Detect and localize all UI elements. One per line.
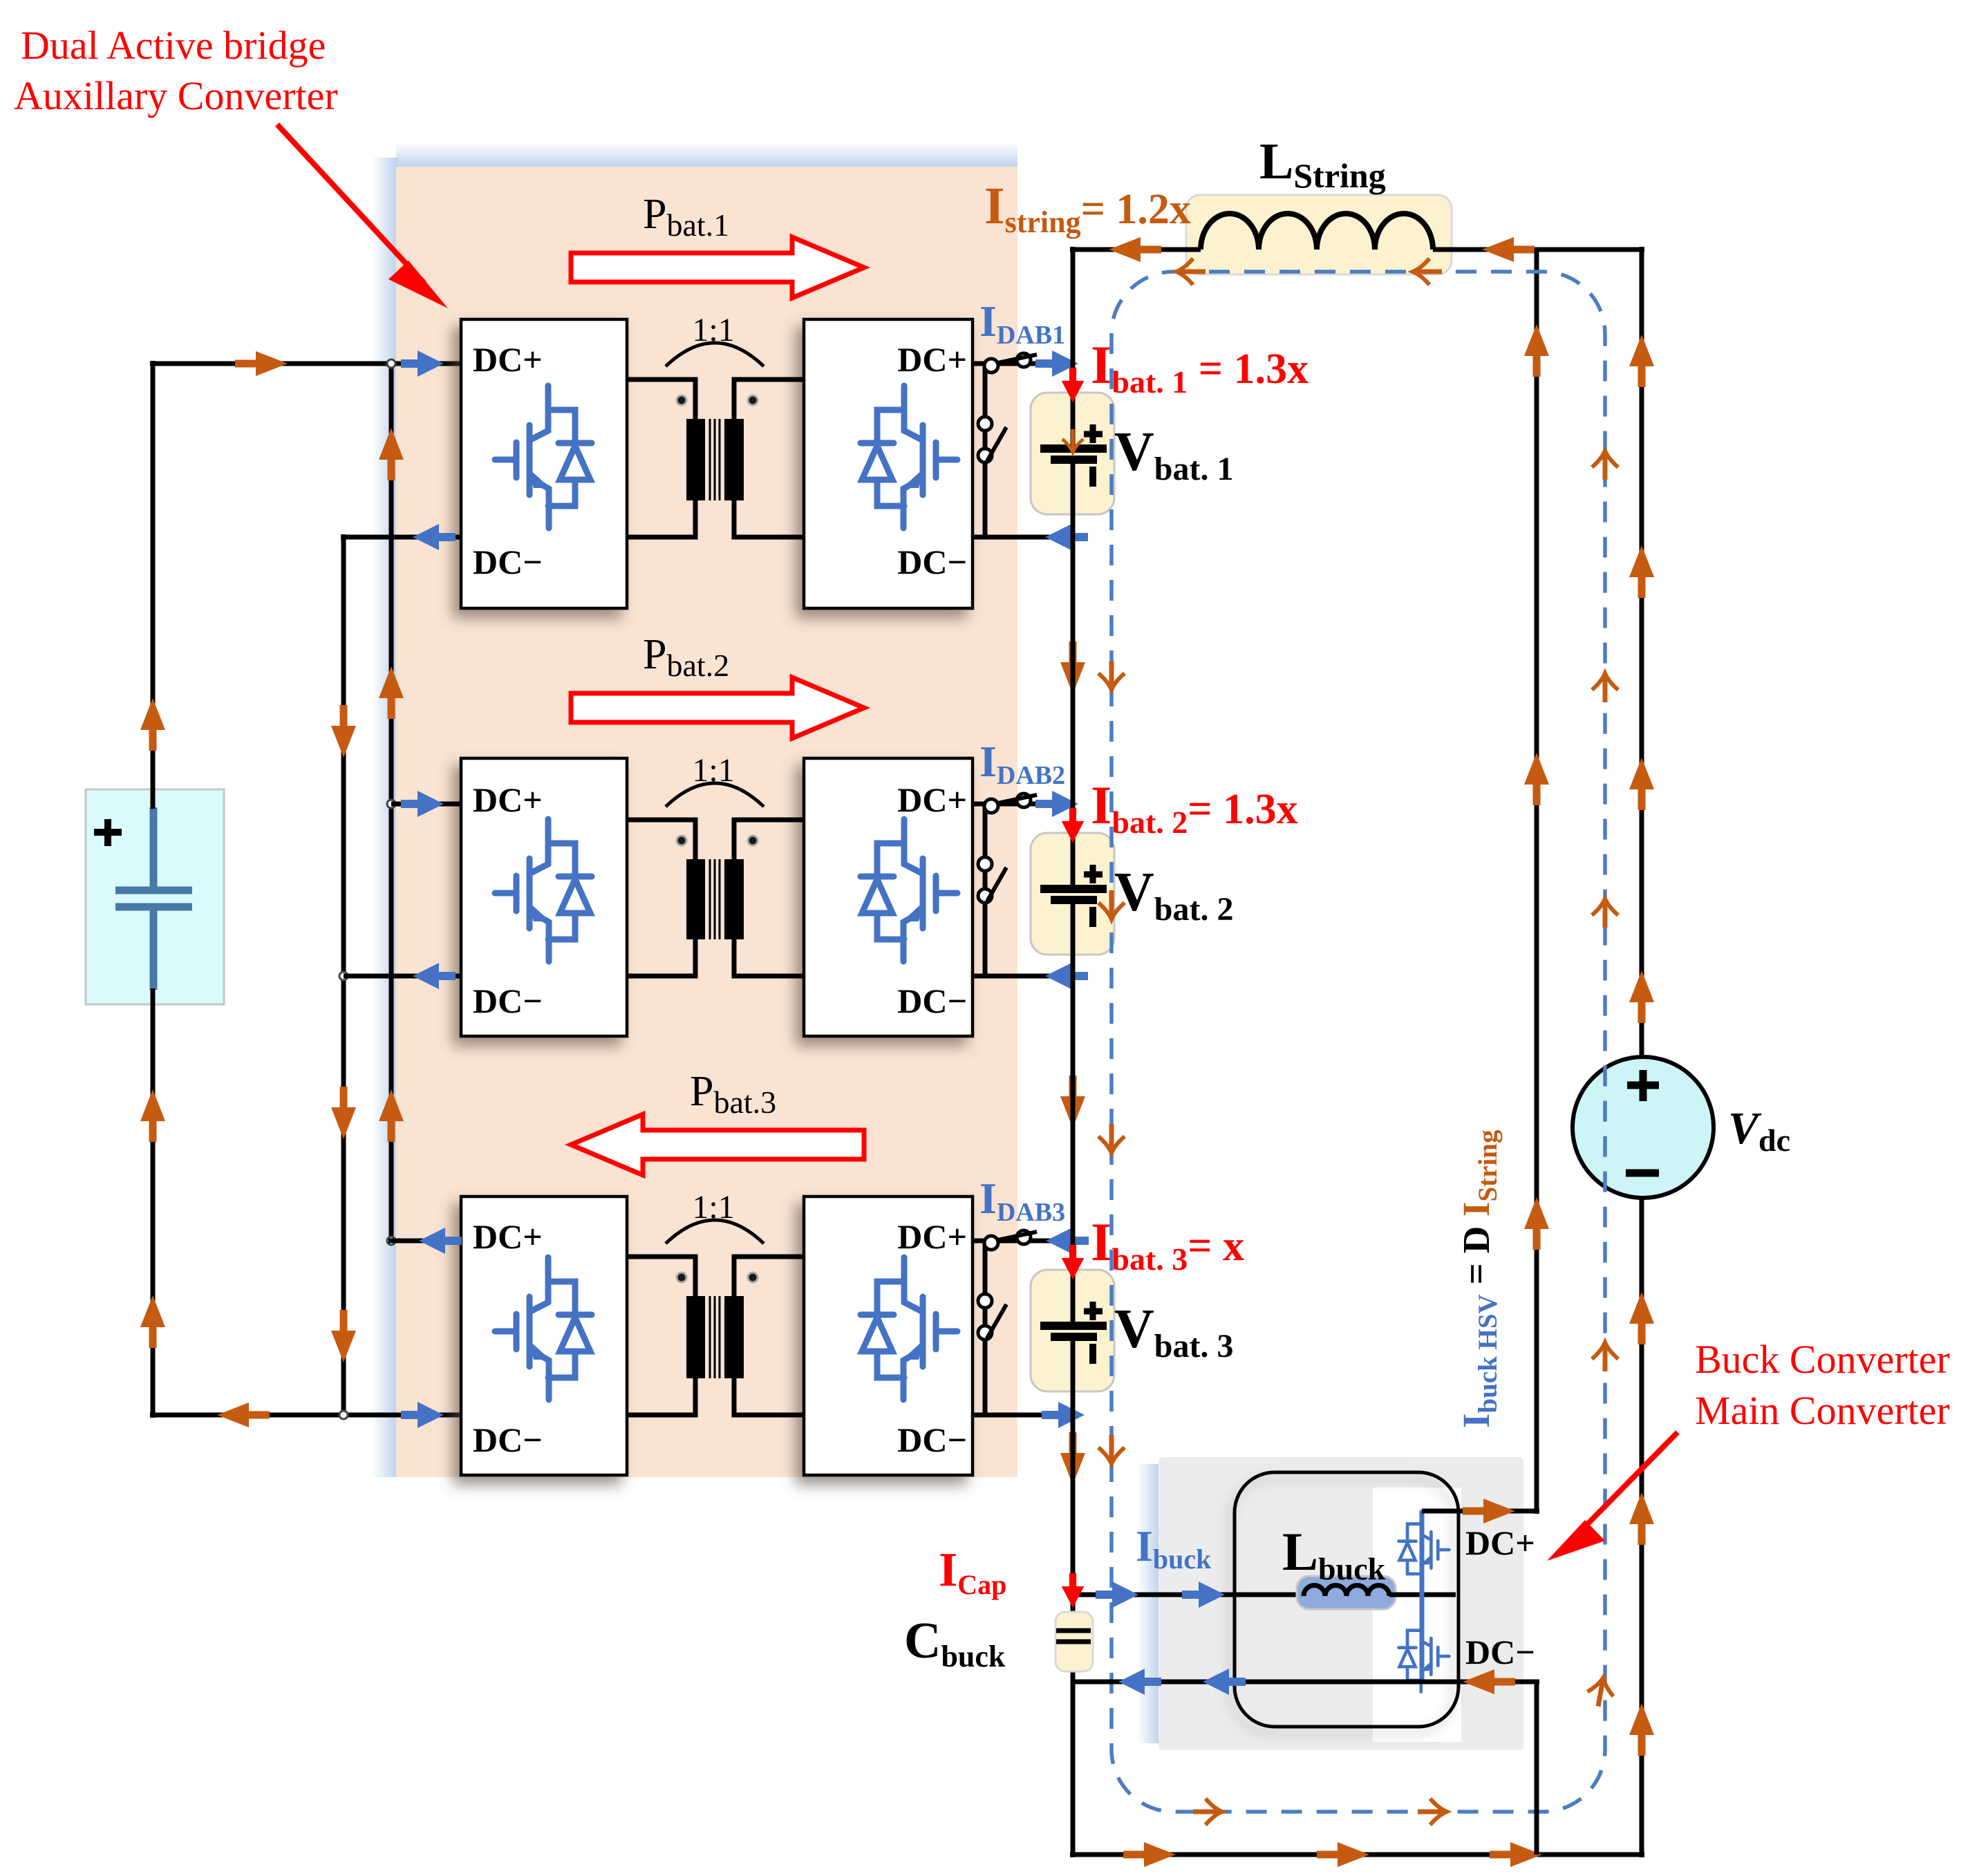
DAB3 right bridge box — [804, 1197, 973, 1475]
transformer T3 primary lead top — [627, 1257, 695, 1296]
junction dot DAB3 DC- bus — [339, 1411, 348, 1419]
transformer T3 secondary lead top — [734, 1257, 804, 1296]
buck lower IGBT — [1399, 1617, 1450, 1691]
transformer T2 secondary lead top — [734, 820, 804, 859]
orange arrow left top wire 1 — [1109, 237, 1161, 262]
transformer T3 secondary lead bottom — [734, 1378, 804, 1415]
V_dc plus sign — [1627, 1070, 1659, 1101]
orange arrow right bottom rail 3 — [1490, 1842, 1542, 1867]
dashed arrow down left dashed 2 — [1098, 890, 1125, 919]
transformer T1 primary winding — [686, 419, 705, 500]
wire left outer vertical bottom — [151, 988, 156, 1418]
wire DAB1 output DC- to battery — [973, 535, 1073, 540]
svg-text:DC+: DC+ — [897, 340, 967, 379]
DAB2 right bridge IGBT — [861, 819, 957, 962]
svg-text:DC−: DC− — [897, 543, 967, 581]
wire DAB2 output DC- to battery — [973, 974, 1073, 979]
svg-text:IDAB2: IDAB2 — [979, 737, 1065, 790]
battery V_bat.3 highlight box — [1031, 1270, 1114, 1391]
orange arrow up outer vertical 4 — [1629, 1292, 1654, 1344]
dashed arrow up right dashed 2 — [1592, 673, 1618, 702]
wire buck DC- return — [1073, 1680, 1539, 1685]
dashed arrow right bottom 2 — [1418, 1799, 1447, 1825]
svg-text:LString: LString — [1259, 133, 1386, 195]
svg-text:IDAB1: IDAB1 — [979, 297, 1065, 350]
switch DAB2 shunt — [978, 857, 1006, 903]
wire DAB3 output DC+ to battery — [973, 1239, 1073, 1244]
orange arrow up bus566 1 — [379, 428, 404, 480]
svg-text:Vdc: Vdc — [1728, 1103, 1790, 1158]
DAB2 right bridge box — [804, 758, 973, 1036]
DAB converter group shaded panel glow — [372, 158, 397, 1477]
orange arrow right DAB1 feed — [235, 351, 288, 376]
DAB1 right bridge IGBT — [861, 386, 957, 528]
wire DAB2 DC+ feed stub — [391, 802, 461, 807]
svg-text:DC−: DC− — [897, 982, 967, 1020]
DAB2 left bridge IGBT — [495, 819, 592, 962]
svg-text:DC−: DC− — [473, 543, 543, 581]
wire top left segment — [1070, 247, 1201, 252]
dashed arrow down left dashed 3 — [1098, 1124, 1125, 1153]
wire DAB1 shunt switch vertical — [983, 364, 988, 537]
orange arrow down bus497 1 — [331, 705, 356, 758]
wire DAB1 DC+ feed horizontal — [150, 362, 461, 366]
battery V_bat.2 wire bottom — [1071, 900, 1076, 976]
transformer T2 primary lead bottom — [627, 939, 695, 976]
inductor L_String — [1201, 214, 1433, 250]
svg-text:1:1: 1:1 — [692, 1189, 734, 1226]
red arrow I_Cap — [1062, 1573, 1085, 1608]
left dc-link capacitor plus sign — [94, 819, 122, 846]
power flow arrow P_bat.1 — [571, 237, 864, 298]
wire inner right vertical (buck DC+ feed) — [1535, 250, 1539, 1514]
svg-text:DC+: DC+ — [473, 780, 543, 819]
transformer T3 coupling arc — [666, 1220, 764, 1244]
switch DAB3 shunt — [978, 1294, 1006, 1340]
transformer T1 secondary lead top — [734, 379, 804, 419]
orange arrow up outer vertical 1b — [1629, 545, 1654, 598]
DAB3 left bridge box — [461, 1197, 627, 1475]
battery V_bat.3 plus mark — [1084, 1302, 1103, 1320]
transformer T1 coupling arc — [666, 343, 764, 366]
svg-text:DC+: DC+ — [897, 780, 967, 819]
DAB1 left bridge box — [461, 319, 627, 608]
transformer T2 primary winding — [686, 859, 705, 939]
red arrow I_bat.3 — [1062, 1245, 1085, 1279]
transformer T3 dot secondary — [748, 1273, 758, 1282]
transformer T2 dot secondary — [748, 836, 758, 845]
transformer T1 dot primary — [677, 395, 686, 405]
inductor L_buck highlight — [1297, 1576, 1396, 1609]
blue arrow I_buck 2 — [1182, 1582, 1225, 1608]
svg-text:Main Converter: Main Converter — [1695, 1388, 1950, 1433]
buck half-bridge rail — [1420, 1511, 1425, 1682]
battery V_bat.2 wire top — [1071, 804, 1076, 889]
wire DAB1 DC- return stub — [341, 535, 461, 540]
svg-text:DC−: DC− — [897, 1420, 967, 1459]
svg-text:DC−: DC− — [473, 982, 543, 1020]
wire left outer vertical top — [151, 361, 156, 809]
transformer T3 primary lead bottom — [627, 1378, 695, 1415]
DAB3 left bridge IGBT — [495, 1257, 592, 1400]
switch DAB1 series — [984, 353, 1037, 373]
dashed arrow up right dashed 5 — [1585, 1676, 1616, 1709]
svg-text:DC−: DC− — [1465, 1633, 1535, 1671]
switch DAB1 shunt — [978, 417, 1006, 462]
orange arrow up outer vertical 1 — [1629, 335, 1654, 387]
wire outer right vertical above Vdc — [1640, 247, 1644, 1058]
wire battery column seg row3-cap — [1071, 1415, 1076, 1631]
blue arrow buck return 1 — [1118, 1669, 1161, 1695]
transformer T1 core lines — [710, 419, 720, 500]
junction dot DAB2 DC- bus — [339, 972, 348, 980]
transformer T1 primary lead top — [627, 379, 695, 419]
dashed arrow left top 1 — [1176, 259, 1206, 285]
battery V_bat.1 wire top — [1071, 364, 1076, 449]
annotation arrow to DAB panel — [277, 124, 448, 308]
battery V_bat.2 highlight box — [1031, 833, 1114, 955]
orange arrow down bus497 3 — [331, 1310, 356, 1362]
battery V_bat.3 wire bottom — [1071, 1337, 1076, 1415]
orange arrow left buck DC- — [1463, 1669, 1515, 1694]
blue arrow DAB2 DC+ to battery — [1035, 791, 1078, 817]
DAB2 left bridge box — [461, 758, 627, 1036]
wire DAB3 DC+ feed stub — [388, 1239, 461, 1244]
wire DAB2 DC- return stub — [344, 974, 461, 979]
transformer T3 core lines — [710, 1296, 720, 1378]
wire outer right vertical below Vdc — [1640, 1197, 1644, 1857]
wire bottom rail — [1070, 1852, 1644, 1857]
transformer T1 dot secondary — [748, 395, 758, 405]
svg-text:DC+: DC+ — [1465, 1523, 1535, 1562]
transformer T1 secondary winding — [724, 419, 744, 500]
battery V_bat.3 wire top — [1071, 1241, 1076, 1326]
transformer T2 dot primary — [677, 836, 686, 845]
wire L_buck to half-bridge — [1389, 1593, 1456, 1597]
buck converter white column behind half-bridge — [1373, 1488, 1461, 1742]
junction dot DAB1 DC+ bus — [387, 359, 395, 368]
wire buck DC+ output — [1422, 1509, 1539, 1514]
transformer T3 primary winding — [686, 1296, 705, 1378]
blue arrow I_buck 1 — [1096, 1582, 1138, 1608]
battery V_bat.3 plates — [1040, 1326, 1107, 1337]
V_dc minus sign — [1626, 1170, 1659, 1177]
orange arrow up outer vertical 6 — [1629, 1703, 1654, 1756]
wire battery column seg row1-row2 — [1071, 537, 1076, 804]
wire DAB2 shunt switch vertical — [983, 804, 988, 976]
transformer T2 primary lead top — [627, 820, 695, 859]
wire DAB2 output DC+ to battery — [973, 802, 1073, 807]
DAB3 right bridge IGBT — [861, 1257, 957, 1400]
svg-text:Vbat. 2: Vbat. 2 — [1114, 862, 1233, 928]
svg-text:DC+: DC+ — [473, 340, 543, 379]
transformer T3 dot primary — [677, 1273, 686, 1282]
svg-text:Ibuck HSV = D IString: Ibuck HSV = D IString — [1455, 1129, 1503, 1428]
DAB1 left bridge IGBT — [495, 386, 592, 528]
transformer T2 secondary winding — [724, 859, 744, 939]
junction dot DAB2 DC+ bus — [387, 800, 395, 808]
transformer T2 secondary lead bottom — [734, 939, 804, 976]
blue arrow DAB1 DC- return — [413, 524, 456, 550]
orange arrow down bus497 2 — [331, 1087, 356, 1139]
red arrow I_bat.1 — [1062, 368, 1085, 402]
wire DAB3 shunt switch vertical — [983, 1241, 988, 1415]
blue arrow DAB1 DC+ to battery — [1035, 350, 1078, 377]
power flow arrow P_bat.2 — [571, 677, 864, 738]
DAB1 right bridge box — [804, 319, 973, 608]
wire battery column top segment — [1071, 247, 1076, 364]
svg-text:Cbuck: Cbuck — [904, 1613, 1006, 1673]
blue arrow DAB2 DC- from battery — [1045, 963, 1088, 989]
dashed arrow up right dashed 4 — [1592, 1342, 1618, 1371]
wire left mid vertical (DC+ bus x=566) — [389, 364, 394, 1241]
power flow arrow P_bat.3 — [571, 1114, 864, 1175]
switch DAB2 series — [984, 794, 1037, 813]
switch DAB3 series — [984, 1230, 1037, 1250]
orange arrow right buck DC+ — [1463, 1499, 1515, 1523]
buck upper IGBT — [1399, 1511, 1450, 1585]
wire DAB3 DC- bottom horizontal — [150, 1413, 461, 1418]
blue arrow DAB2 DC+ into bridge — [401, 791, 444, 817]
wire left return vertical (DC- bus x=497) — [341, 534, 346, 1415]
wire top right segment — [1433, 247, 1644, 252]
battery V_bat.1 plates — [1040, 449, 1107, 460]
dashed HSV current loop — [1111, 272, 1605, 1812]
orange arrow up outer vertical 3 — [1629, 970, 1654, 1023]
wire DAB1 output DC+ to battery — [973, 362, 1073, 366]
transformer T3 secondary winding — [724, 1296, 744, 1378]
junction dot DAB3 DC+ corner — [387, 1237, 395, 1245]
orange arrow up left outer 2 — [140, 1089, 165, 1142]
voltage source V_dc circle — [1573, 1057, 1714, 1198]
dashed arrow right bottom 1 — [1193, 1799, 1222, 1825]
dashed arrow left top 2 — [1413, 259, 1442, 285]
orange arrow down battery column 1 — [1060, 641, 1085, 694]
inductor L_buck — [1304, 1586, 1389, 1597]
svg-text:1:1: 1:1 — [692, 312, 734, 348]
red arrow I_bat.2 — [1062, 808, 1085, 843]
svg-text:IDAB3: IDAB3 — [979, 1174, 1065, 1227]
blue arrow DAB3 DC- to battery — [1042, 1402, 1085, 1428]
orange arrow down battery column 2 — [1060, 1076, 1085, 1128]
left dc-link capacitor box — [86, 789, 224, 1004]
blue arrow DAB3 DC- into bridge — [401, 1402, 444, 1428]
battery V_bat.1 highlight box — [1031, 393, 1114, 514]
transformer T1 secondary lead bottom — [734, 500, 804, 537]
orange chevron inside battery 1 — [1062, 429, 1083, 453]
orange arrow down battery column 3 — [1060, 1432, 1085, 1485]
battery V_bat.2 plus mark — [1084, 865, 1103, 883]
wire I_buck horizontal — [1073, 1593, 1304, 1597]
DAB converter group shaded panel — [396, 167, 1017, 1477]
inductor L_String highlight box — [1186, 195, 1452, 274]
blue arrow DAB1 DC- from battery — [1045, 524, 1088, 550]
wire battery column seg row2-row3 — [1071, 976, 1076, 1241]
battery V_bat.2 minus tick — [1089, 907, 1096, 927]
svg-text:Buck Converter: Buck Converter — [1695, 1337, 1950, 1382]
dashed arrow up right dashed 3 — [1592, 899, 1618, 928]
transformer T2 coupling arc — [666, 783, 764, 807]
annotation arrow to buck panel — [1547, 1432, 1678, 1561]
buck inner rounded box — [1235, 1472, 1458, 1727]
battery V_bat.1 wire bottom — [1071, 460, 1076, 537]
wire battery column seg cap-bottom — [1071, 1641, 1076, 1857]
orange arrow up inner vertical 2 — [1524, 753, 1549, 805]
blue arrow DAB3 DC+ from battery — [1046, 1228, 1089, 1254]
buck converter shaded panel — [1158, 1457, 1523, 1750]
orange arrow up left outer 3 — [140, 1295, 165, 1348]
dashed arrow up right dashed 1 — [1592, 451, 1618, 480]
svg-text:DC−: DC− — [473, 1420, 543, 1459]
orange arrow right bottom rail 2 — [1317, 1842, 1369, 1867]
capacitor C_buck highlight — [1056, 1612, 1093, 1671]
transformer T1 primary lead bottom — [627, 500, 695, 537]
orange arrow up bus566 3 — [379, 1089, 404, 1142]
orange arrow up outer vertical 5 — [1629, 1492, 1654, 1545]
svg-text:1:1: 1:1 — [692, 752, 734, 789]
svg-text:Auxillary Converter: Auxillary Converter — [14, 73, 338, 118]
orange arrow up left outer 1 — [140, 698, 165, 751]
svg-text:Vbat. 1: Vbat. 1 — [1114, 422, 1233, 487]
blue arrow buck return 2 — [1203, 1669, 1246, 1695]
orange arrow up outer vertical 2 — [1629, 758, 1654, 810]
wire buck DC- drop to rail — [1535, 1680, 1539, 1855]
blue arrow DAB2 DC- return — [413, 963, 456, 989]
battery V_bat.3 minus tick — [1089, 1344, 1096, 1364]
wire DAB3 output DC- to battery — [973, 1413, 1073, 1418]
svg-text:DC+: DC+ — [473, 1217, 543, 1256]
orange arrow left DAB3 bottom — [217, 1403, 270, 1427]
svg-text:DC+: DC+ — [897, 1217, 967, 1256]
svg-text:ICap: ICap — [939, 1544, 1006, 1600]
transformer T2 core lines — [710, 859, 720, 939]
orange arrow up inner vertical 1 — [1524, 324, 1549, 377]
blue arrow DAB3 DC+ out of bridge — [419, 1228, 462, 1254]
orange arrow up inner vertical 3 — [1524, 1197, 1549, 1250]
battery V_bat.1 plus mark — [1084, 424, 1103, 443]
svg-text:Dual Active bridge: Dual Active bridge — [21, 23, 326, 68]
orange arrow up bus566 2 — [379, 666, 404, 719]
orange arrow left top wire 2 — [1482, 237, 1535, 262]
left dc-link capacitor symbol — [115, 807, 192, 990]
capacitor C_buck plates — [1056, 1631, 1091, 1642]
dashed arrow down left dashed 4 — [1098, 1435, 1125, 1464]
svg-text:Ibat. 2= 1.3x: Ibat. 2= 1.3x — [1091, 775, 1298, 840]
svg-text:Ibat. 3= x: Ibat. 3= x — [1091, 1212, 1244, 1277]
buck converter shaded panel glow — [1137, 1464, 1160, 1743]
battery V_bat.2 plates — [1040, 889, 1107, 900]
orange arrow right bottom rail 1 — [1123, 1842, 1176, 1867]
svg-text:Ibat. 1 = 1.3x: Ibat. 1 = 1.3x — [1091, 335, 1308, 400]
svg-text:Vbat. 3: Vbat. 3 — [1114, 1299, 1233, 1364]
battery V_bat.1 minus tick — [1089, 467, 1096, 487]
blue arrow DAB1 DC+ into bridge — [401, 350, 444, 377]
dashed arrow down left dashed 1 — [1098, 661, 1125, 690]
